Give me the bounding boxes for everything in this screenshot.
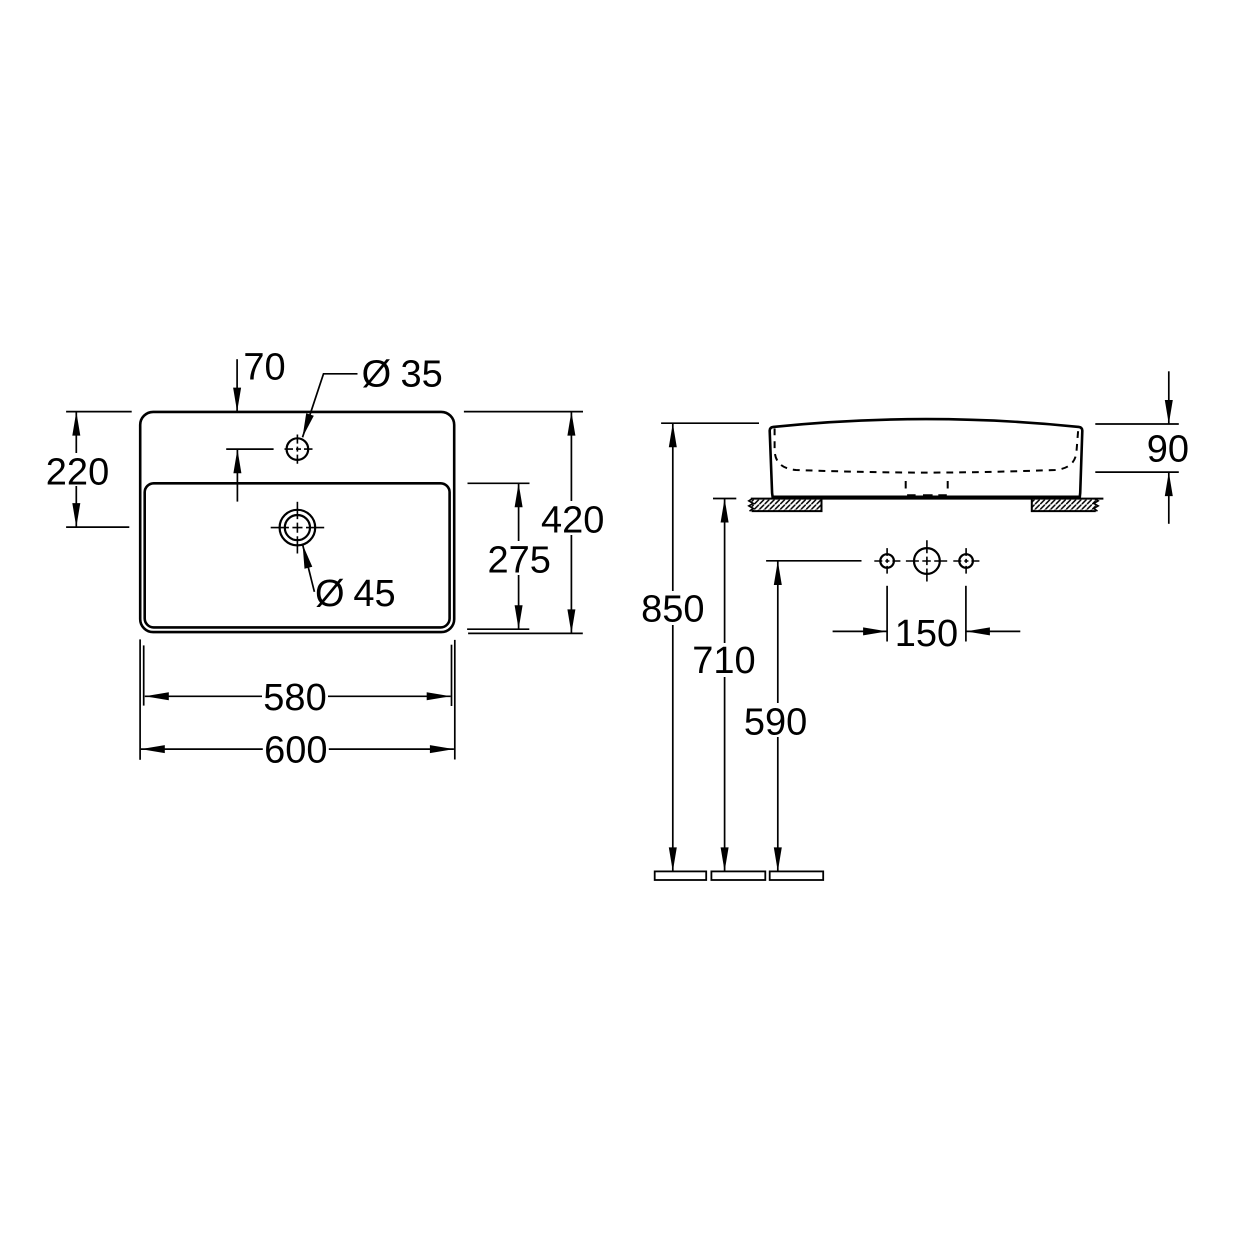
dimension text 420 [541,501,605,535]
tap hole middle circle [914,548,940,574]
dimension 580 line [145,695,451,697]
tap hole left centerlines [874,560,900,562]
dimension 90 bottom extension line [1095,471,1179,473]
right mounting pad hatch [1032,500,1096,512]
dimension 420 bottom extension line [468,632,583,634]
dimension text 600 [263,732,329,765]
dimension 600 right extension line [454,640,456,760]
svg-text:Ø: Ø [315,573,345,615]
dimension 850 line [672,423,674,871]
svg-text:590: 590 [744,701,807,743]
dimension 420 top extension line [464,411,583,413]
dimension 710 line [724,499,726,872]
drain centerlines [271,527,325,529]
dimension 90 top extension line [1095,423,1179,425]
dimension text 580 [262,680,328,713]
dimension 150 right extension (dashed center line) [965,586,967,642]
tap hole left circle [880,554,894,568]
floor bar 1 [655,871,707,880]
faucet hole centerlines [285,448,313,450]
outer rim of basin [140,412,454,632]
svg-text:275: 275 [487,539,550,581]
left pad break mark [749,499,753,512]
dimension 580 left extension line [143,645,145,705]
dimension 275 bottom extension line [467,628,529,630]
dimension 70 lower arrow [236,449,238,501]
dimension 70 extension line [226,448,273,450]
dimension text 710 [692,643,756,677]
dimension 275 top extension line [468,482,530,484]
drain hole outer circle [280,510,316,546]
basin inner bowl (hidden, dashed) [775,429,1079,473]
dimension 150 left extension (dashed center line) [886,586,888,642]
dimension 150 right arrow [966,630,1020,632]
dimension 220 bottom extension line [66,526,129,528]
floor bar 3 [770,871,824,880]
dimension text 590 [744,703,808,737]
tap hole right centerlines [953,560,979,562]
dimension 70 upper arrow [236,359,238,411]
svg-text:150: 150 [895,613,958,655]
dimension 600 line [141,748,454,750]
floor bar 2 [711,871,765,880]
dimension 580 right extension line [451,645,453,706]
svg-text:Ø: Ø [362,354,392,396]
svg-text:710: 710 [692,640,755,682]
svg-text:580: 580 [263,677,326,719]
right pad break mark [1094,499,1098,512]
wall mounting surface line [751,498,1104,500]
svg-text:90: 90 [1147,428,1189,470]
faucet hole circle [287,438,309,460]
svg-text:70: 70 [243,346,285,388]
svg-text:600: 600 [264,729,327,771]
dimension 150 left arrow [833,630,888,632]
drain outlet right wall (dashed) [947,481,949,489]
dimension text 850 [641,591,705,625]
dimension 275 line [518,483,520,629]
dimension 590 line [777,561,779,871]
drain hole inner circle [285,515,310,540]
svg-text:45: 45 [353,573,395,615]
dimension 220 line [75,412,77,527]
dimension 710 extension line [713,498,736,500]
dimension 420 line [570,412,572,634]
drain outlet left wall (dashed) [905,481,907,489]
tap hole right circle [959,554,973,568]
leader line for Ø 45 [303,545,315,592]
dimension 90 lower arrow [1168,472,1170,524]
basin body outline [770,419,1083,497]
inner bowl edge [145,483,450,627]
dimension text 275 [487,541,551,575]
svg-text:220: 220 [46,451,109,493]
svg-text:35: 35 [401,354,443,396]
dimension text 220 [45,453,109,486]
leader line for Ø 35 [303,374,358,438]
svg-text:420: 420 [541,499,604,541]
svg-text:850: 850 [641,588,704,630]
dimension 590 extension line [766,560,861,562]
dimension 850 extension line [661,422,759,424]
dimension 600 left extension line [139,639,141,759]
drain outlet bottom dashes [907,494,947,497]
tap hole middle centerlines [906,560,947,562]
dimension 220 top extension line [66,411,132,413]
left mounting pad hatch [752,500,822,512]
dimension 90 upper arrow [1168,371,1170,424]
